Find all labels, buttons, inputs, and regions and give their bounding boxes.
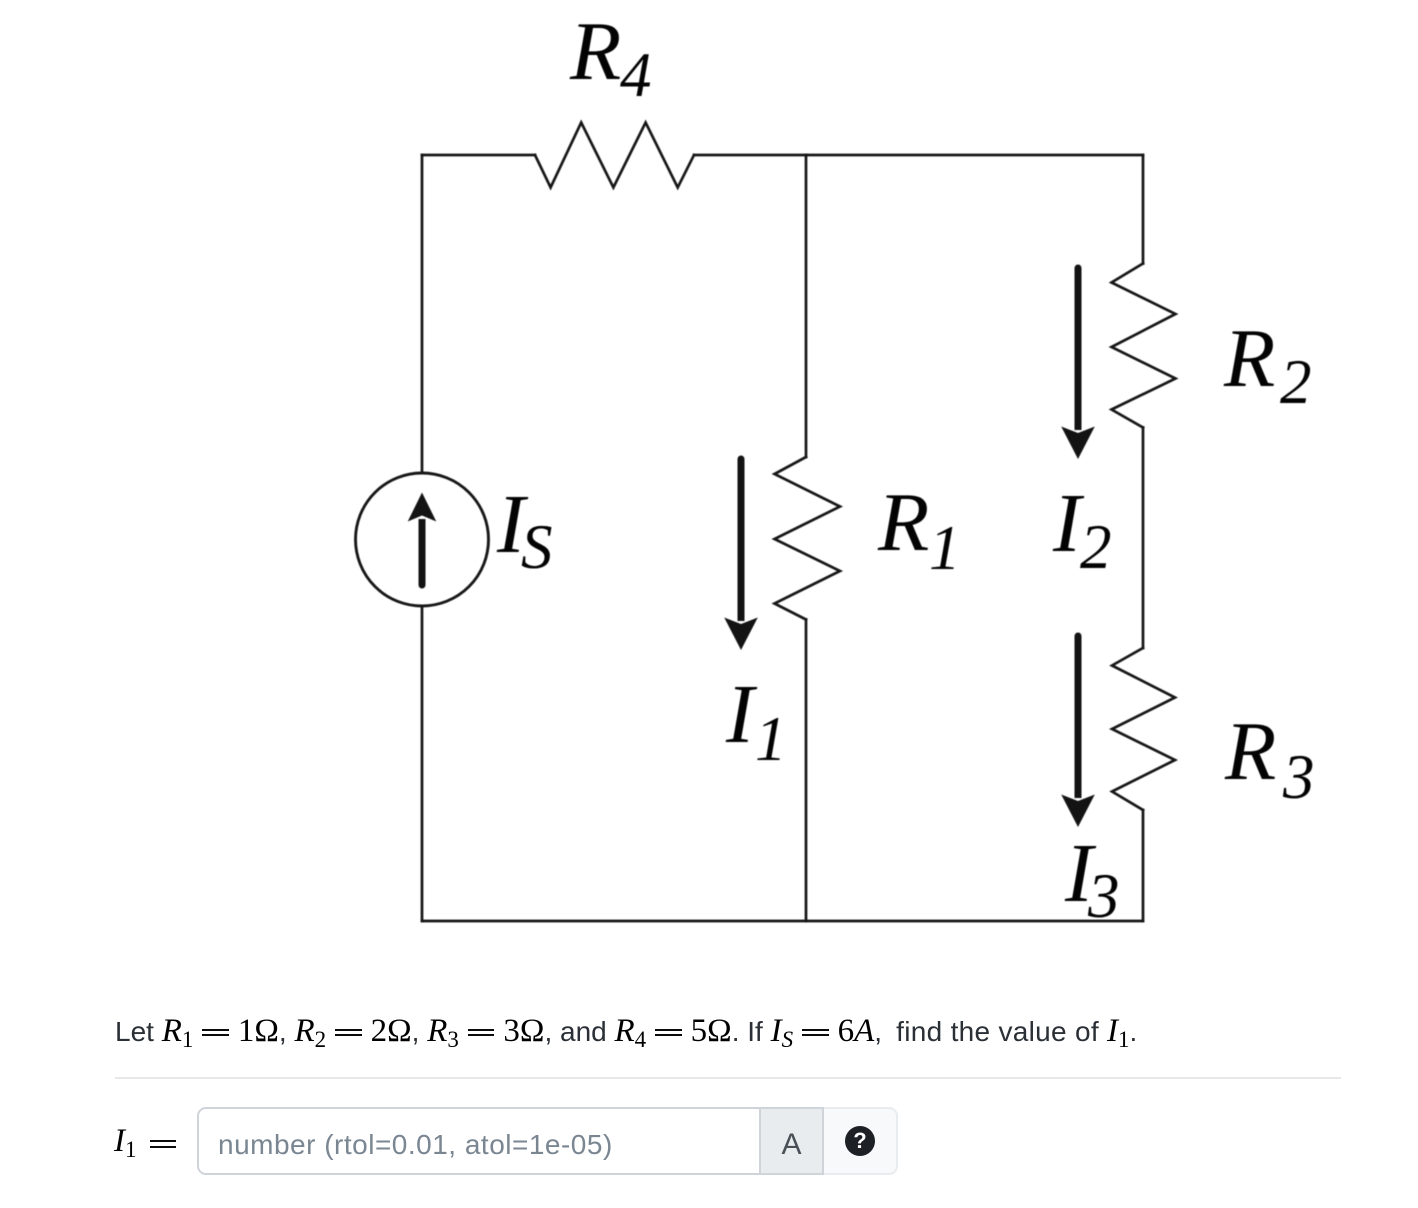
label I2 — [1052, 477, 1112, 582]
resistor R3 — [1112, 648, 1175, 810]
resistor R1 — [775, 457, 841, 620]
svg-text:2: 2 — [1280, 347, 1312, 417]
svg-text:I: I — [725, 668, 758, 761]
arrow I2 — [1061, 265, 1095, 459]
svg-text:1: 1 — [929, 513, 961, 583]
svg-text:S: S — [521, 512, 553, 582]
label IS — [496, 478, 553, 582]
arrow I3 — [1061, 633, 1095, 828]
label I1 — [725, 668, 787, 774]
svg-text:2: 2 — [1080, 512, 1112, 582]
problem statement — [115, 1013, 1137, 1053]
wire: left branch upper — [421, 155, 424, 473]
answer label I1 = — [114, 1123, 186, 1163]
svg-text:4: 4 — [620, 40, 652, 110]
current source IS circle — [356, 473, 489, 606]
svg-text:R: R — [569, 5, 621, 98]
wire: left branch lower — [421, 606, 424, 921]
label I3 — [1064, 827, 1120, 931]
wire: middle branch upper — [805, 155, 808, 457]
svg-text:3: 3 — [1282, 742, 1315, 812]
wire: R4 to top-right corner — [694, 154, 1143, 157]
arrow I1 — [724, 456, 758, 650]
answer input group — [197, 1107, 898, 1175]
wire: middle branch lower — [805, 620, 808, 922]
label R2 — [1223, 312, 1312, 417]
wire: top-left to R4 — [422, 154, 535, 157]
resistor R2 — [1112, 264, 1176, 428]
svg-text:3: 3 — [1087, 861, 1120, 931]
svg-text:1: 1 — [755, 704, 787, 774]
svg-text:R: R — [877, 476, 929, 569]
resistor R4 — [535, 123, 694, 188]
wire: bottom — [422, 920, 1143, 923]
horizontal rule — [115, 1077, 1341, 1079]
wire: right branch lower — [1142, 810, 1145, 921]
svg-text:R: R — [1223, 312, 1275, 405]
svg-text:R: R — [1224, 705, 1276, 798]
label R3 — [1224, 705, 1315, 812]
wire: right branch upper — [1142, 155, 1145, 264]
arrow of source IS — [408, 493, 437, 589]
label R4 — [569, 5, 652, 110]
wire: right branch middle — [1142, 428, 1145, 649]
label R1 — [877, 476, 961, 583]
